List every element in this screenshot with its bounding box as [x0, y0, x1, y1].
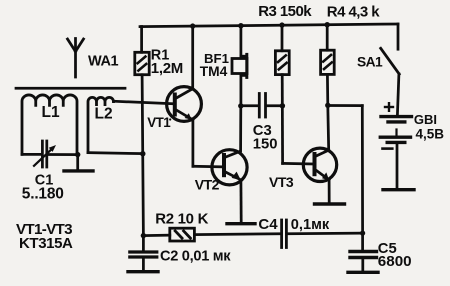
svg-text:VT3: VT3 — [269, 174, 294, 190]
svg-text:SA1: SA1 — [357, 55, 383, 70]
node R4 rail — [325, 22, 330, 27]
node bias bottom — [141, 233, 146, 238]
svg-text:6800: 6800 — [378, 253, 412, 270]
wire L2 bottom to node — [88, 153, 143, 154]
node BF1 rail — [238, 23, 243, 28]
node tank/ground — [75, 152, 80, 157]
wire C3 to R3 — [267, 104, 283, 107]
wire L2 to VT1 base — [114, 101, 175, 104]
svg-text:L2: L2 — [95, 106, 113, 123]
wire to ground — [76, 155, 79, 170]
resistor R4 — [321, 25, 335, 75]
node VT2 collector net — [238, 103, 243, 108]
ground C5 — [348, 271, 378, 274]
svg-text:TM4: TM4 — [200, 64, 228, 79]
svg-text:R2 10 K: R2 10 K — [155, 210, 208, 227]
wire VT3 emitter — [328, 180, 331, 202]
transistor VT2 — [212, 150, 247, 185]
node VT1 collector rail — [190, 23, 195, 28]
svg-text:4,5B: 4,5B — [416, 126, 445, 141]
capacitor C2 — [130, 236, 157, 270]
wire C4 to C5 node — [288, 232, 363, 235]
svg-text:VT2: VT2 — [195, 177, 220, 193]
node L2 bias — [140, 151, 145, 156]
svg-text:L1: L1 — [42, 104, 60, 121]
capacitor C3 — [259, 94, 265, 118]
svg-text:1,2M: 1,2M — [151, 60, 183, 77]
resistor R2 — [170, 228, 195, 241]
wire node to C5 column — [328, 104, 363, 107]
resistor R3 — [275, 25, 289, 74]
svg-text:GBI: GBI — [414, 112, 437, 127]
svg-text:0,1мк: 0,1мк — [291, 217, 330, 233]
battery GBI — [380, 103, 411, 148]
inductor L1 — [22, 95, 77, 155]
scan speck — [169, 118, 171, 120]
antenna WA1 — [68, 39, 84, 78]
svg-text:VT1: VT1 — [147, 115, 171, 130]
node VT3 base net — [280, 103, 285, 108]
wire R3 to VT3 base — [281, 75, 284, 164]
wire node to VT3 collector — [326, 105, 330, 150]
wire BF1 to C3 — [241, 104, 258, 107]
wire battery minus — [396, 144, 399, 187]
inductor L2 — [88, 97, 114, 152]
node C5 — [360, 231, 365, 236]
svg-text:5..180: 5..180 — [22, 186, 64, 203]
transistor VT3 — [303, 148, 336, 181]
wire BF1 node to VT2 collector — [239, 106, 242, 151]
wire VT2 emitter — [240, 180, 243, 222]
wire node to R2 — [143, 234, 169, 237]
ground tank — [64, 169, 93, 172]
svg-text:C4: C4 — [258, 216, 278, 233]
svg-text:150: 150 — [253, 137, 278, 153]
top rail — [140, 24, 398, 27]
svg-text:R3 150k: R3 150k — [258, 3, 312, 20]
node R4 VT3 collector — [325, 103, 330, 108]
ground battery — [383, 188, 414, 191]
transistor VT1 — [167, 87, 202, 122]
wire R2 to C4 — [195, 232, 281, 236]
switch SA1 — [381, 24, 400, 115]
capacitor C4 — [282, 220, 287, 248]
wire VT1 emitter to VT2 base — [193, 165, 223, 168]
wire C5 column down — [361, 106, 364, 233]
wire R4 bottom — [326, 74, 329, 105]
wire to VT3 base — [283, 162, 313, 165]
earphone BF1 — [232, 26, 247, 106]
variable capacitor C1 — [34, 141, 56, 167]
ground VT2 emitter — [227, 222, 255, 225]
ground C2 — [128, 270, 158, 273]
capacitor C5 — [350, 233, 377, 271]
wire tank left — [22, 153, 41, 156]
wire VT1 collector — [191, 26, 194, 89]
ground VT3 emitter — [315, 202, 345, 205]
svg-text:C2 0,01 мк: C2 0,01 мк — [160, 248, 231, 264]
wire tank right — [48, 153, 78, 156]
ferrite rod line — [16, 87, 125, 90]
wire R1 bottom to bias node — [142, 75, 143, 236]
node R3 rail — [279, 22, 284, 27]
svg-text:WA1: WA1 — [88, 54, 119, 70]
wire VT1 emitter down — [192, 120, 195, 167]
svg-text:R4 4,3 k: R4 4,3 k — [327, 4, 381, 21]
resistor R1 — [135, 27, 149, 75]
svg-text:KT315A: KT315A — [19, 235, 73, 252]
